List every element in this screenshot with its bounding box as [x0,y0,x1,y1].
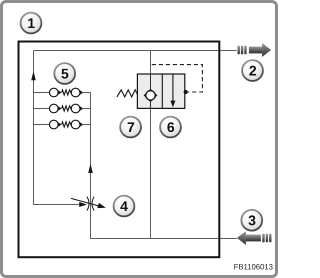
pilot junction dot [184,90,188,94]
flow arrow up on right rail [88,164,93,173]
wire: right rail down and bottom line to port 3 [91,93,237,239]
valve block body [137,74,184,108]
wire through valve [150,74,152,108]
wire: top line to port 2 [34,50,237,52]
check valve row 2 [34,104,91,113]
spring 7 [117,90,138,97]
balloon 4 [114,196,135,217]
wire: main valve line [150,51,152,239]
valve flow arrow down [172,74,174,101]
wire: left rail down to throttle branch [34,51,79,205]
balloon 1 [21,13,42,34]
throttle orifice 4 [87,197,94,211]
balloon 3 [241,210,262,231]
balloon 6 [160,117,181,138]
check valve row 3 [34,120,91,129]
check valve seat diamond [144,90,156,102]
balloon 2 [242,60,263,81]
port arrow 3 (in, left) [237,231,272,245]
port arrow 2 (out, right) [238,43,272,57]
adjustment diagonal arrow [71,198,99,206]
figure number label [234,264,272,269]
flow arrow into throttle [79,202,87,207]
check valve ball [146,91,155,100]
main border box [19,42,220,258]
flow arrow up on left rail [31,71,36,80]
pilot dashed line [152,65,203,92]
check valve row 1 [34,88,91,97]
valve divider [161,74,163,108]
balloon 7 [120,117,141,138]
balloon 5 [54,63,75,84]
